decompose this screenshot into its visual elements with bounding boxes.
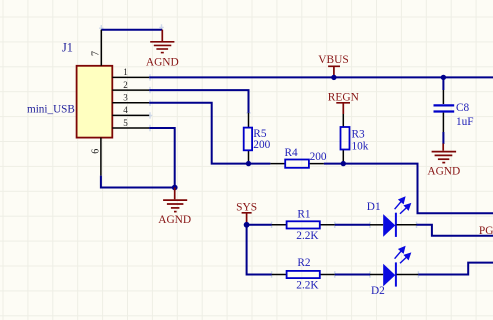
svg-text:200: 200 bbox=[253, 139, 270, 151]
svg-text:6: 6 bbox=[91, 149, 102, 154]
svg-text:D1: D1 bbox=[367, 201, 381, 213]
pin 6 bbox=[91, 138, 102, 176]
svg-text:3: 3 bbox=[123, 93, 128, 103]
power port VBUS bbox=[318, 54, 348, 77]
svg-text:mini_USB: mini_USB bbox=[27, 103, 75, 115]
wire endpoint markers bbox=[99, 24, 421, 278]
wire pin3 down bbox=[149, 103, 270, 164]
junction at VBUS bbox=[331, 75, 336, 80]
svg-text:5: 5 bbox=[123, 118, 128, 128]
wire C8 to AGND bbox=[442, 132, 444, 144]
svg-text:AGND: AGND bbox=[158, 214, 191, 226]
svg-text:REGN: REGN bbox=[328, 91, 359, 103]
ground AGND top bbox=[146, 30, 179, 69]
svg-text:4: 4 bbox=[123, 105, 128, 115]
svg-text:R4: R4 bbox=[285, 147, 299, 159]
pin 1 bbox=[112, 67, 149, 77]
ground AGND bottom left bbox=[158, 188, 191, 227]
capacitor C8 bbox=[434, 77, 474, 132]
junction AGND bottom bbox=[172, 185, 178, 191]
svg-text:AGND: AGND bbox=[146, 56, 179, 68]
junction at C8 bbox=[441, 75, 446, 80]
svg-text:R1: R1 bbox=[297, 208, 310, 220]
resistor R4 bbox=[270, 147, 326, 168]
LED D2 bbox=[370, 247, 418, 297]
svg-text:2: 2 bbox=[123, 80, 128, 90]
svg-text:2.2K: 2.2K bbox=[296, 230, 319, 242]
svg-text:C8: C8 bbox=[456, 102, 470, 114]
wire R4 to R3 bbox=[324, 163, 343, 165]
junction R3 bottom bbox=[341, 161, 346, 166]
svg-text:VBUS: VBUS bbox=[318, 54, 348, 66]
svg-text:7: 7 bbox=[90, 51, 101, 56]
junction R5 bottom bbox=[246, 161, 251, 166]
svg-text:1: 1 bbox=[123, 67, 128, 77]
ground AGND under C8 bbox=[427, 144, 460, 178]
svg-text:10k: 10k bbox=[352, 141, 369, 153]
svg-text:2.2K: 2.2K bbox=[296, 280, 319, 292]
resistor R2 bbox=[272, 257, 335, 292]
wire pin5 to AGND bbox=[149, 128, 175, 188]
wire D2 to right edge bbox=[418, 263, 493, 275]
pin 3 bbox=[112, 93, 149, 103]
resistor R3 bbox=[341, 114, 369, 164]
wire R2 to D2 bbox=[335, 274, 370, 276]
junction SYS bbox=[244, 222, 250, 228]
wire D1 to PG bbox=[417, 225, 493, 236]
svg-text:J1: J1 bbox=[62, 40, 73, 54]
svg-text:D2: D2 bbox=[371, 285, 385, 297]
wire pin2 to R5 bbox=[149, 90, 248, 113]
svg-text:200: 200 bbox=[310, 151, 327, 163]
pin 7 bbox=[90, 30, 101, 66]
wire SYS down to row2 bbox=[247, 225, 272, 275]
svg-text:R3: R3 bbox=[352, 129, 366, 141]
connector J1 body bbox=[77, 66, 113, 138]
svg-text:PGOOD: PGOOD bbox=[479, 225, 493, 237]
wire R3 junction to right rail bbox=[343, 164, 493, 214]
svg-text:SYS: SYS bbox=[236, 202, 257, 214]
svg-text:AGND: AGND bbox=[427, 166, 460, 178]
wire pin6 to AGND bbox=[101, 176, 175, 188]
svg-text:R2: R2 bbox=[297, 257, 311, 269]
wire R1 to D1 bbox=[335, 224, 370, 226]
resistor R1 bbox=[272, 208, 335, 242]
resistor R5 bbox=[244, 113, 271, 164]
LED D1 bbox=[367, 197, 417, 237]
power port REGN bbox=[328, 91, 359, 114]
wire pin7 to AGND bbox=[101, 29, 162, 31]
pin 2 bbox=[112, 80, 149, 90]
wire SYS to R1 bbox=[247, 224, 272, 226]
power port SYS bbox=[236, 202, 257, 225]
pin 5 bbox=[112, 118, 149, 128]
pin 4 bbox=[112, 105, 149, 115]
wire VBUS rail bbox=[149, 76, 493, 78]
svg-text:1uF: 1uF bbox=[456, 116, 474, 128]
